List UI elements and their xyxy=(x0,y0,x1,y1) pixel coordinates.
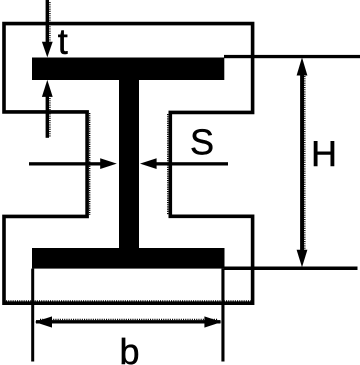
S left dimension line xyxy=(29,162,101,165)
S right arrowhead (points left) xyxy=(140,158,157,169)
t bottom arrowhead (up) xyxy=(42,80,53,97)
b line teeth xyxy=(40,318,218,320)
t dimension lower tail xyxy=(46,93,49,138)
svg-text:b: b xyxy=(119,331,139,365)
bottom flange (filled) xyxy=(32,248,225,269)
left notch vertical teeth xyxy=(89,113,91,215)
H bottom arrowhead (down) xyxy=(297,250,308,267)
b left arrowhead (points left) xyxy=(35,316,52,327)
top flange (filled) xyxy=(32,58,224,81)
H dimension line xyxy=(300,70,304,255)
I-beam stepped outline xyxy=(4,24,253,304)
svg-text:S: S xyxy=(190,121,214,162)
svg-text:H: H xyxy=(311,133,337,174)
right b extension line xyxy=(221,269,224,362)
left b extension line xyxy=(31,269,34,362)
t tail teeth xyxy=(49,98,51,137)
top extension line xyxy=(224,55,360,58)
S left arrowhead (points right) xyxy=(100,158,117,169)
right notch vertical teeth xyxy=(167,114,169,215)
t dimension upper line xyxy=(46,0,49,44)
b right arrowhead (points right) xyxy=(204,316,221,327)
outline bottom edge teeth xyxy=(6,300,251,302)
bottom extension line xyxy=(224,267,358,271)
t upper line teeth xyxy=(49,2,51,42)
S right dimension line xyxy=(153,162,228,165)
H line teeth xyxy=(304,76,306,250)
t top arrowhead (down) xyxy=(42,42,53,58)
web (filled) xyxy=(119,58,139,268)
b dimension line xyxy=(36,320,221,323)
H top arrowhead (up) xyxy=(297,57,308,75)
svg-text:t: t xyxy=(58,21,68,62)
